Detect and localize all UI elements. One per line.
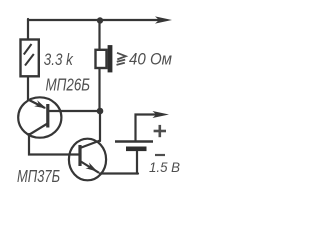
wire node A down to V2 collector xyxy=(99,111,101,141)
transistor V1 МП26Б (PNP) xyxy=(18,97,61,137)
wire bottom rail xyxy=(100,172,138,174)
wire earphone bottom lead to node A xyxy=(98,68,100,111)
wire top rail xyxy=(28,19,163,21)
battery GB1 plates xyxy=(115,142,153,152)
svg-text:3.3 k: 3.3 k xyxy=(44,51,74,69)
svg-text:МП37Б: МП37Б xyxy=(17,166,60,186)
wire battery bottom lead xyxy=(136,151,138,174)
value label >= 40 Om xyxy=(117,53,126,65)
earphone BF1 body xyxy=(96,45,113,72)
wire V1 collector down and right to V2 base xyxy=(29,134,79,155)
arrow V1 emitter xyxy=(34,100,46,108)
resistor R1 leads xyxy=(27,76,29,100)
node B junction dot (base/collector net) xyxy=(97,108,104,115)
resistor R1 3.3k body xyxy=(21,40,39,77)
wire earphone top lead xyxy=(98,21,100,51)
transistor V2 МП37Б (NPN) xyxy=(69,139,106,181)
svg-text:1.5 В: 1.5 В xyxy=(149,160,180,175)
wire battery top lead xyxy=(136,115,162,142)
arrow battery output xyxy=(153,111,170,118)
svg-text:40 Ом: 40 Ом xyxy=(129,50,172,69)
label + xyxy=(154,125,166,137)
arrow top right xyxy=(155,16,172,23)
svg-text:МП26Б: МП26Б xyxy=(46,74,91,94)
label - xyxy=(155,154,165,156)
node A junction dot (top rail) xyxy=(97,17,103,23)
wire V1 base lead xyxy=(49,110,99,112)
arrow V2 emitter xyxy=(86,163,98,172)
wire top-left drop to resistor xyxy=(27,19,29,40)
